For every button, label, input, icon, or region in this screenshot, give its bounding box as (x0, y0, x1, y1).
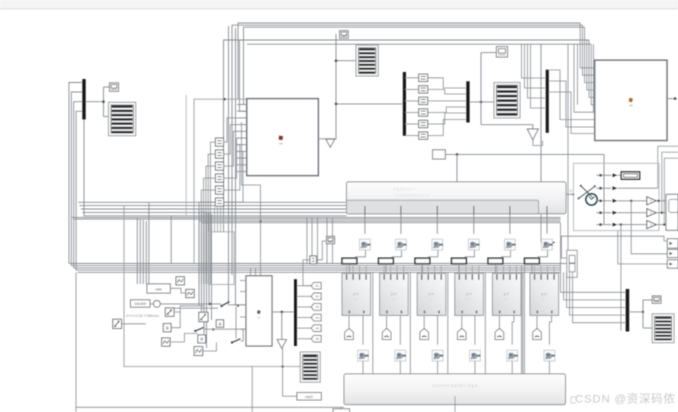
rate block DR3 (415, 258, 430, 264)
constant L2 (131, 300, 151, 307)
wire M2 output (470, 101, 494, 103)
wire band-B line 1 (72, 216, 561, 218)
region outline right (574, 163, 660, 230)
wire Z1-2 to B1 (224, 125, 237, 155)
switch SW1 (222, 302, 230, 307)
wire Dm1 out 5 (405, 123, 419, 125)
wire TJ6 to bar (548, 361, 550, 374)
wire long vertical v541 (540, 44, 542, 182)
wire below cluster 2 (282, 348, 284, 396)
junction box mid (209, 232, 235, 285)
wire BL5 down (512, 315, 514, 344)
wire M4 input 5 (573, 272, 626, 322)
leg subsystem BL2 (380, 273, 409, 315)
wire DR5 down (494, 264, 496, 274)
wire to L3 (283, 395, 297, 397)
wire Z1-3 to B1 (224, 131, 237, 166)
leg subsystem BL4 (455, 273, 484, 315)
wire riser pair right (521, 266, 523, 374)
rate block DR1 (342, 258, 357, 264)
unit delay Z2-5 (419, 120, 428, 127)
switch SW3 (232, 339, 241, 343)
svg-text:Vdc300: Vdc300 (134, 302, 146, 306)
wire Z1-4 to B1 (224, 138, 237, 178)
wire column drop 5 (509, 214, 511, 234)
wire left feeder 3 (74, 102, 83, 268)
wire bottom long (76, 406, 344, 408)
unit delay Z1-5 (215, 186, 223, 194)
wire Z1-6 left (199, 202, 215, 284)
svg-text:+ -: + - (429, 297, 433, 301)
gain A3 (216, 320, 223, 327)
pwm icon TJ4 (470, 350, 481, 361)
wire column drop 1 (364, 214, 366, 234)
svg-text:g m: g m (391, 292, 397, 296)
V1 input ticks (240, 280, 246, 282)
wire mid descender 2 (201, 210, 203, 320)
constant L3 (297, 393, 321, 400)
B2 icon (628, 97, 633, 102)
wire zcol descender 4 (223, 207, 225, 232)
wire zcol descender 2 (217, 207, 219, 232)
scope S4 (652, 314, 674, 343)
subsystem B2 (595, 60, 667, 140)
wire bottom bracket (571, 397, 576, 403)
svg-text:P2: P2 (316, 295, 320, 299)
wire L1 out (170, 288, 186, 293)
wire DR4 down (458, 264, 460, 274)
wire band-C line 2 (72, 265, 561, 267)
wire Z2-6 to M2 (428, 120, 467, 136)
svg-text:rad2: rad2 (305, 394, 314, 399)
unit delay Z1-6 (215, 198, 223, 206)
unit delay Z2-3 (419, 97, 428, 104)
unit delay Z1-2 (215, 150, 223, 158)
wire mid descender 5 (208, 213, 210, 306)
leg subsystem BL5 (492, 273, 521, 315)
subsystem V1 (246, 276, 272, 346)
wire left descender b (235, 28, 237, 306)
wire top bus line 5 (247, 43, 591, 45)
svg-text:+ -: + - (542, 297, 546, 301)
wire TJ5 to bar (511, 361, 513, 374)
wire DR3 down (421, 264, 423, 274)
wire nested corner 3 (664, 158, 678, 224)
leg subsystem BL3 (417, 273, 446, 315)
gain A2 (198, 335, 206, 343)
wire band-B line 2 (74, 218, 561, 220)
saturation SB7 (113, 319, 122, 328)
wire M4 input 2 (564, 272, 626, 300)
svg-text:+ -: + - (467, 297, 471, 301)
wire slider feed (561, 236, 667, 258)
port tag TAG5 (495, 328, 504, 339)
svg-text:g m: g m (466, 292, 472, 296)
port tag TAG4 (458, 328, 467, 339)
switch SW2 (195, 327, 204, 331)
wire column drop 6 (546, 214, 548, 234)
wire SB3 out (174, 306, 180, 312)
wire slider link (561, 263, 567, 265)
unit delay Z1-3 (215, 162, 223, 170)
scope RB1 (666, 194, 678, 230)
wire Z1-2 left (208, 154, 215, 284)
display D3 (496, 47, 507, 58)
wire M3 input 3 (528, 44, 546, 98)
source SB6 (194, 347, 203, 356)
gain label L1 (147, 284, 170, 293)
wire band-A line 5 (84, 120, 347, 216)
svg-text:>: > (650, 223, 652, 227)
wire M3 input 4 (531, 44, 546, 108)
wire DR1 down (348, 264, 350, 274)
wire Z1-5 to B1 (224, 145, 240, 190)
wire M4 input 3 (567, 272, 626, 307)
wire M3 step 2 (549, 81, 595, 127)
wire SB6 out (203, 343, 217, 352)
wire v568 descender (567, 44, 569, 250)
pwm icon TJ5 (507, 350, 518, 361)
wire TI5 to rect (502, 250, 511, 258)
wire mid descender 4 (206, 212, 208, 348)
region outline R1 (124, 206, 300, 367)
wire nested corner 1 (658, 146, 678, 188)
display DR6 (621, 172, 639, 179)
source SB1 (176, 277, 184, 285)
goto tag P2 (297, 295, 311, 297)
wire A1 out (171, 312, 180, 328)
unit delay Z1-4 (215, 174, 223, 182)
svg-text:Un: Un (279, 142, 283, 146)
svg-text:tb: tb (572, 192, 575, 196)
wire M3 input 2 (525, 44, 546, 88)
wire BL1 down (362, 315, 364, 344)
wire below cluster 1 (251, 367, 253, 412)
wire Z1-4 left (204, 178, 216, 284)
wire cluster feeder 3 (142, 220, 144, 284)
wire Z2-3 to M2 (428, 100, 467, 102)
wire column drop 3 (436, 214, 438, 234)
wire BL6 to tag (536, 315, 538, 328)
wire M4 input 4 (570, 272, 626, 315)
leg subsystem BL6 (530, 273, 559, 315)
wire signal row 2 (597, 187, 612, 189)
wire M1 output (86, 101, 104, 103)
scope S3 (300, 352, 320, 382)
wire left descender c (240, 40, 247, 111)
wire Z2-2 to M2 (428, 89, 467, 94)
wire top bus line 3 (244, 27, 585, 104)
wire BL4 to tag (461, 315, 463, 328)
wide subsystem bar W1 (347, 182, 567, 214)
slider SL1 (567, 250, 577, 277)
wire Z1-5 left (201, 190, 215, 284)
wire mid descender 3 (203, 211, 205, 334)
wire B1 output (318, 34, 336, 139)
pwm icon TI1 (360, 239, 371, 250)
unit delay Z2-4 (419, 109, 428, 116)
manual switch MS1 (153, 301, 160, 308)
wire BL2 to tag (386, 315, 388, 328)
wire BL1 to tag (348, 315, 350, 328)
wire cluster feeder 2 (139, 219, 141, 284)
display D4 (326, 236, 334, 243)
svg-text:g m: g m (504, 292, 510, 296)
svg-text:a: a (166, 326, 169, 332)
leg subsystem BL1 (342, 273, 371, 315)
mux M1 (82, 79, 85, 120)
wire left descender a (228, 26, 230, 306)
wire cluster feeder 6 (148, 203, 150, 284)
top toolbar strip (0, 0, 678, 9)
wire Dm1 out 1 (405, 77, 419, 79)
unit delay Zb (310, 256, 317, 264)
svg-text:P6: P6 (316, 337, 320, 341)
wire M3 step 3 (549, 92, 595, 134)
source SB5 (162, 338, 170, 346)
wire column drop 4 (473, 214, 475, 234)
svg-text:Mt: Mt (629, 104, 632, 108)
wire TI1 to rect (356, 250, 366, 258)
terminator T3 (527, 129, 538, 140)
svg-text:CSDN @资深码侬: CSDN @资深码侬 (575, 392, 676, 406)
wire band-A line 3 (81, 208, 347, 210)
wire Z2-5 to M2 (428, 113, 467, 124)
goto tag P3 (297, 306, 311, 308)
wire TJ4 to bar (474, 361, 476, 374)
wire TI6 to rect (538, 250, 548, 258)
wire BL4 down (474, 315, 476, 344)
saturation SB3 (165, 308, 174, 316)
wire Dm1 out 4 (405, 112, 419, 114)
terminator T1 (326, 139, 335, 147)
rate block DR5 (488, 258, 503, 264)
unit delay Z2-6 (419, 132, 428, 139)
wire top bus line 2 (232, 25, 582, 275)
demux Dm1 (403, 72, 406, 136)
outport O3 (667, 260, 678, 268)
wire BL3 down (437, 315, 439, 344)
svg-text:P5: P5 (316, 326, 320, 330)
V1 top feeders (250, 268, 252, 275)
wire mid descender 6 (211, 214, 213, 320)
wire SR1 output (445, 153, 604, 155)
wire top bus line 1 (238, 23, 580, 99)
port tag TAG6 (533, 328, 542, 339)
wire band-A line 2 (80, 205, 347, 207)
unit delay Z1-1 (215, 138, 223, 146)
mux M3 (546, 70, 549, 133)
wire left feeder 2 (71, 92, 82, 266)
gain G1 (647, 197, 656, 205)
svg-text:P1: P1 (316, 284, 320, 288)
wire Z1-1 to B1 (224, 118, 237, 142)
wire band-C line 1 (70, 263, 561, 265)
clock CLK1 (586, 194, 597, 205)
constant SR1 (433, 150, 446, 159)
display D5 (652, 296, 661, 303)
wire to demux Dm1 (336, 103, 403, 105)
wire TJ1 to bar (362, 361, 364, 374)
svg-text:P3: P3 (316, 305, 320, 309)
wire Z1-6 to B1 (224, 151, 243, 202)
wire M3 input 1 (522, 44, 546, 78)
B1 icon (278, 135, 283, 140)
scope S2 (356, 45, 378, 76)
wire TI4 to rect (465, 250, 474, 258)
display D1 (110, 83, 119, 91)
wire gap vertical 4 (484, 272, 486, 374)
svg-text:+ -: + - (354, 297, 358, 301)
wire cluster feeder 5 (170, 216, 172, 264)
wire to S2 (336, 60, 356, 62)
wire SB5 out (170, 333, 198, 342)
wire long tap (620, 223, 622, 225)
svg-text:rate: rate (155, 286, 163, 291)
svg-text:u n i v e r s a l b r i d g: u n i v e r s a l b r i d g e (433, 383, 478, 388)
svg-text:+ -: + - (505, 297, 509, 301)
wire gap vertical 3 (447, 272, 449, 374)
svg-text:2Y.H-0.05 778times: 2Y.H-0.05 778times (126, 314, 159, 318)
wire sw3 feeder (235, 307, 237, 339)
wire TJ3 to bar (437, 361, 439, 374)
wire top bus line 4 (224, 40, 590, 232)
wire W1 right output (566, 193, 574, 195)
W2 bottom ticks (364, 206, 366, 214)
wire BL3 to tag (423, 315, 425, 328)
wire gap vertical 1 (372, 272, 374, 374)
scope S1 (109, 102, 136, 135)
wire band-B line 4 (202, 222, 561, 224)
source SB2 (186, 289, 194, 297)
wide bar W2 overlay (347, 200, 539, 214)
rate block DR4 (452, 258, 467, 264)
wire band-A line 4 (83, 211, 347, 213)
wire M3 step 1 (549, 70, 595, 120)
wire DR2 down (385, 264, 387, 274)
rate block DR2 (379, 258, 394, 264)
demux M3b (294, 279, 297, 346)
wire SB7 out (122, 323, 147, 325)
display D2 (340, 31, 349, 39)
wire M4 input 1 (561, 272, 626, 292)
mux M2 (466, 81, 469, 122)
wire gap vertical 2 (409, 272, 411, 374)
wire band-C line 3 (74, 267, 561, 269)
wire BL2 down (399, 315, 401, 344)
wire signal row 3 (597, 200, 612, 202)
wire M4 output (629, 311, 643, 313)
wire cluster feeder 1 (136, 218, 138, 284)
wire column drop 2 (400, 214, 402, 234)
wire left feeder 1 (69, 83, 82, 264)
wire Z1-3 left (206, 166, 216, 284)
rate block DR6 (525, 258, 540, 264)
port tag TAG2 (382, 328, 391, 339)
svg-text:>: > (650, 211, 652, 215)
port tag TAG3 (420, 328, 429, 339)
svg-text:f r e q w t m e a s u r e: f r e q w t m e a s u r e (395, 194, 429, 198)
wire B2 output (667, 98, 677, 100)
wire zcol descender 1 (214, 207, 216, 232)
wire DR6 down (531, 264, 533, 274)
goto tag P6 (297, 338, 311, 340)
svg-text:d q a b c p l l: d q a b c p l l (393, 187, 415, 191)
wire TI2 to rect (392, 250, 402, 258)
wire left feeder 4 (76, 111, 82, 270)
wire BL5 to tag (498, 315, 500, 328)
pwm icon TI6 (542, 239, 553, 250)
wire band-B line 3 (199, 220, 561, 222)
wire Dm1 out 6 (405, 135, 419, 137)
svg-text:a: a (200, 337, 203, 343)
svg-text:P4: P4 (316, 316, 320, 320)
wire Z2-4 to M2 (428, 107, 467, 113)
goto tag P5 (297, 327, 311, 329)
wire BL6 down (549, 315, 551, 344)
wire tap O3 (618, 231, 668, 264)
wire Z1-1 left (211, 142, 216, 284)
pwm icon TI3 (432, 239, 443, 250)
outport O2 (667, 249, 678, 257)
goto tag P1 (297, 285, 311, 287)
wire nested corner 2 (662, 152, 678, 213)
svg-text:g m: g m (541, 292, 547, 296)
wire signal row 1 (597, 174, 612, 176)
saturation SB4 (199, 312, 208, 321)
svg-text:+ -: + - (392, 297, 396, 301)
gain A1 (163, 324, 171, 332)
pwm icon TJ6 (544, 350, 555, 361)
mux M4 (626, 289, 630, 332)
wire V1 output (272, 311, 296, 313)
pwm icon TJ2 (395, 350, 406, 361)
svg-text:g m: g m (353, 292, 359, 296)
svg-text:a: a (219, 321, 222, 327)
svg-text:g m: g m (428, 292, 434, 296)
unit delay Z2-2 (419, 86, 428, 93)
pwm icon TJ3 (432, 350, 443, 361)
B1 input ticks (237, 104, 247, 106)
wire cluster feeder 4 (145, 221, 147, 284)
gain G3 (647, 221, 656, 229)
wire parallel pair (174, 307, 218, 309)
wire band-A line 1 (78, 201, 347, 203)
wire mid descender 1 (198, 209, 200, 306)
terminator T2 (281, 312, 283, 340)
pwm icon TI2 (396, 239, 407, 250)
wire Dm1 out 2 (405, 88, 419, 90)
wire zcol descender 3 (220, 207, 222, 232)
svg-text:>: > (650, 199, 652, 203)
port tag TAG1 (345, 328, 354, 339)
wire Dm1 out 3 (405, 100, 419, 102)
partial block bottom edge (333, 409, 350, 412)
region outline upper (194, 99, 247, 263)
goto tag P4 (297, 317, 311, 319)
wire bus risers mid (306, 217, 308, 263)
pwm icon TI4 (468, 239, 479, 250)
wire MS1 long out (160, 303, 221, 305)
outport O1 (667, 239, 678, 248)
wire Z2-1 to M2 (428, 78, 467, 88)
gain G2 (647, 209, 656, 217)
pwm icon TI5 (505, 239, 516, 250)
wire signal row 5 (597, 224, 612, 226)
subsystem B1 (247, 99, 318, 176)
wire signal row 4 (597, 212, 612, 214)
pwm icon TJ1 (358, 350, 369, 361)
